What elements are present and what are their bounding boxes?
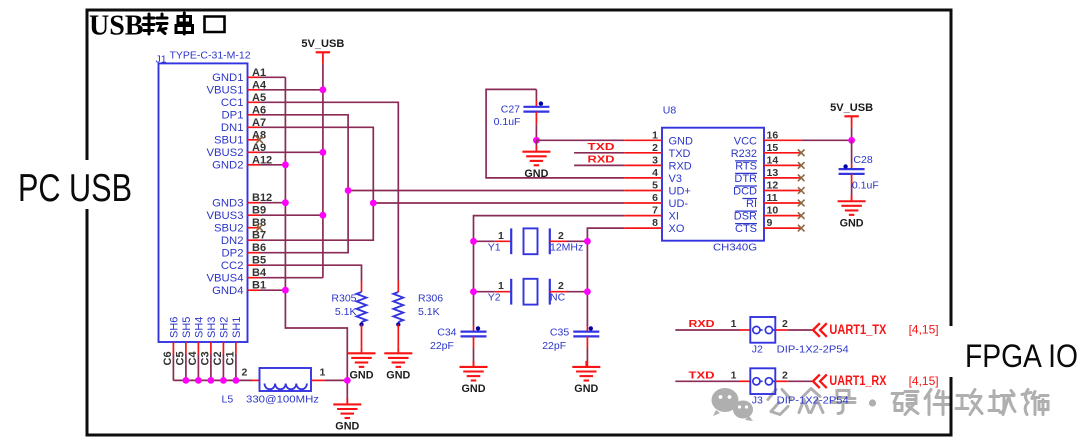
wire CC1 to R306 — [260, 102, 399, 280]
svg-text:5V_USB: 5V_USB — [830, 102, 873, 114]
svg-text:0.1uF: 0.1uF — [852, 180, 879, 192]
ground GND under C34 — [460, 361, 488, 395]
pin 9 CTS of U8 — [735, 217, 801, 235]
svg-text:DP1: DP1 — [222, 110, 244, 122]
svg-text:2: 2 — [782, 318, 788, 330]
svg-text:2: 2 — [558, 230, 564, 242]
pin 1 GND of U8 — [624, 129, 693, 147]
connector J3 DIP-1X2-2P54 — [731, 368, 849, 406]
svg-text:GND2: GND2 — [212, 160, 243, 172]
pin C6 SH6 of J1 — [162, 317, 181, 366]
svg-text:3: 3 — [652, 154, 658, 166]
svg-text:UD+: UD+ — [669, 186, 691, 198]
pin A5 CC1 of J1 — [221, 92, 266, 109]
svg-text:RXD: RXD — [669, 160, 692, 172]
no-connect X on U8 pin 12 — [798, 187, 805, 194]
IC U8 CH340G — [662, 105, 764, 254]
svg-text:CC1: CC1 — [221, 97, 244, 109]
svg-text:SH5: SH5 — [181, 317, 193, 338]
svg-text:DP2: DP2 — [222, 248, 244, 260]
svg-text:TXD: TXD — [588, 141, 616, 153]
connector J1 TYPE-C-31-M-12 — [156, 50, 251, 343]
svg-text:13: 13 — [767, 167, 779, 179]
pin 4 V3 of U8 — [624, 167, 682, 185]
svg-text:2: 2 — [652, 142, 658, 154]
svg-text:GND: GND — [840, 217, 864, 229]
svg-text:2: 2 — [558, 280, 564, 292]
svg-text:2: 2 — [242, 367, 248, 379]
pin 5 UD+ of U8 — [624, 180, 691, 198]
svg-text:C28: C28 — [853, 154, 872, 166]
wire power stem — [851, 128, 853, 141]
svg-text:TXD: TXD — [689, 369, 716, 381]
svg-text:RI: RI — [746, 198, 757, 210]
pin 14 RTS of U8 — [735, 154, 801, 172]
connector J2 DIP-1X2-2P54 — [731, 317, 849, 355]
svg-text:R305: R305 — [331, 293, 356, 305]
pin A7 DN1 of J1 — [221, 117, 266, 134]
svg-text:CH340G: CH340G — [713, 242, 757, 254]
svg-text:DN1: DN1 — [221, 122, 244, 134]
schematic frame border — [87, 10, 951, 435]
no-connect X on U8 pin 9 — [798, 225, 805, 232]
wire 5V_USB net: VBUS1-4 vertical bus — [260, 64, 323, 278]
svg-text:0.1uF: 0.1uF — [494, 116, 521, 128]
svg-text:J2: J2 — [752, 343, 763, 355]
svg-text:DIP-1X2-2P54: DIP-1X2-2P54 — [777, 395, 849, 407]
pin B6 DP2 of J1 — [222, 242, 267, 259]
pin 10 DSR of U8 — [734, 205, 801, 223]
pin A1 GND1 of J1 — [212, 67, 266, 84]
power 5V_USB (right) — [830, 102, 873, 128]
svg-text:9: 9 — [767, 217, 773, 229]
ground GND under R306 — [384, 347, 412, 381]
svg-text:[4,15]: [4,15] — [909, 323, 939, 337]
svg-text:U8: U8 — [663, 105, 677, 117]
ground GND under R305 — [348, 347, 376, 381]
svg-text:GND3: GND3 — [212, 198, 243, 210]
pin 12 DCD of U8 — [733, 180, 801, 198]
svg-text:DTR: DTR — [734, 173, 757, 185]
title USB转串口 — [89, 10, 225, 41]
pin A9 VBUS2 of J1 — [206, 142, 266, 159]
svg-text:1: 1 — [731, 318, 737, 330]
svg-text:1: 1 — [498, 280, 504, 292]
svg-text:Y1: Y1 — [488, 241, 501, 253]
svg-text:J1: J1 — [156, 54, 167, 66]
svg-text:GND: GND — [335, 421, 359, 433]
junction Y1 — [470, 238, 591, 245]
wire C27 junction to U8 pin1 — [536, 139, 624, 141]
svg-text:GND: GND — [462, 383, 486, 395]
svg-text:L5: L5 — [222, 394, 234, 406]
svg-text:2: 2 — [782, 369, 788, 381]
svg-text:7: 7 — [652, 205, 658, 217]
svg-text:1: 1 — [498, 230, 504, 242]
svg-text:GND: GND — [350, 370, 374, 382]
no-connect X on U8 pin 10 — [798, 212, 805, 219]
svg-text:5.1K: 5.1K — [418, 306, 440, 318]
resistor R305 5.1K — [331, 281, 366, 347]
svg-text:TXD: TXD — [669, 148, 691, 160]
pin B9 VBUS3 of J1 — [206, 205, 266, 222]
net label TXD at U8 — [574, 141, 624, 153]
svg-text:C5: C5 — [174, 351, 186, 365]
pin 2 TXD of U8 — [624, 142, 690, 160]
svg-text:GND: GND — [669, 135, 694, 147]
pin A12 GND2 of J1 — [212, 154, 272, 171]
pin B1 GND4 of J1 — [212, 280, 266, 297]
junction UD- — [370, 200, 377, 207]
net label TXD at J3 — [675, 369, 740, 381]
junction VCC — [848, 137, 855, 144]
svg-text:GND1: GND1 — [212, 72, 243, 84]
pin C2 SH2 of J1 — [212, 317, 231, 366]
wire UD- net: DN1/DN2 to U8 pin6 — [260, 127, 625, 240]
svg-text:UD-: UD- — [669, 198, 689, 210]
pin B8 SBU2 of J1 — [214, 217, 266, 234]
svg-text:DSR: DSR — [734, 211, 757, 223]
svg-text:12: 12 — [767, 180, 779, 192]
junction shield bus — [183, 377, 240, 384]
pin 16 VCC of U8 — [734, 129, 801, 147]
svg-text:DCD: DCD — [733, 186, 757, 198]
svg-text:11: 11 — [767, 192, 778, 204]
port UART1_RX — [788, 373, 939, 388]
ground GND under L5 — [333, 398, 361, 432]
svg-text:8: 8 — [652, 217, 658, 229]
svg-text:C35: C35 — [550, 327, 569, 339]
net label RXD at U8 — [574, 154, 624, 166]
junction C27/GND/pin1 — [533, 137, 540, 144]
svg-text:CC2: CC2 — [221, 260, 244, 272]
svg-text:XO: XO — [669, 223, 685, 235]
svg-text:1: 1 — [320, 367, 326, 379]
svg-text:22pF: 22pF — [430, 340, 454, 352]
svg-text:12MHz: 12MHz — [550, 241, 583, 253]
svg-text:10: 10 — [767, 205, 779, 217]
svg-text:SBU1: SBU1 — [214, 135, 244, 147]
svg-text:SH4: SH4 — [193, 317, 205, 338]
svg-text:RXD: RXD — [588, 154, 616, 166]
ground GND under C27 — [522, 146, 550, 180]
svg-text:NC: NC — [550, 292, 566, 304]
svg-text:5V_USB: 5V_USB — [301, 38, 344, 50]
pin 11 RI of U8 — [742, 192, 801, 210]
wire VCC pin16 to 5V — [801, 139, 851, 141]
svg-text:GND: GND — [574, 383, 598, 395]
svg-text:330@100MHz: 330@100MHz — [246, 394, 319, 406]
pin C3 SH3 of J1 — [199, 317, 218, 366]
pin C1 SH1 of J1 — [224, 317, 243, 366]
pin 13 DTR of U8 — [734, 167, 801, 185]
svg-text:XI: XI — [669, 211, 679, 223]
capacitor C28 0.1uF — [839, 140, 879, 201]
svg-text:VBUS2: VBUS2 — [206, 147, 243, 159]
svg-text:GND4: GND4 — [212, 285, 243, 297]
svg-text:C27: C27 — [501, 104, 520, 116]
port UART1_TX — [788, 322, 939, 337]
svg-text:R232: R232 — [731, 148, 757, 160]
svg-text:SBU2: SBU2 — [214, 223, 244, 235]
wire GND net: GND1/GND2/GND3/GND4 bus to L5 — [260, 77, 348, 404]
svg-text:C34: C34 — [437, 327, 456, 339]
net label RXD at J2 — [675, 318, 740, 330]
svg-text:VCC: VCC — [734, 135, 757, 147]
svg-text:C6: C6 — [162, 351, 174, 365]
ground GND under C28 — [838, 195, 866, 229]
svg-text:SH1: SH1 — [231, 317, 243, 338]
svg-text:J3: J3 — [752, 395, 763, 407]
no-connect X on J1 pin A8 SBU1 — [256, 137, 263, 144]
svg-text:RXD: RXD — [689, 318, 715, 330]
junction 5V bus — [320, 86, 327, 218]
power 5V_USB (top left) — [301, 38, 344, 64]
pin C5 SH5 of J1 — [174, 317, 193, 366]
capacitor C34 22pF — [430, 326, 487, 367]
wire SH shield bus to L5 — [173, 354, 252, 380]
junction L5/GND — [344, 377, 351, 384]
svg-text:V3: V3 — [669, 173, 682, 185]
pin B12 GND3 of J1 — [212, 192, 272, 209]
no-connect X on U8 pin 13 — [798, 175, 805, 182]
svg-text:DIP-1X2-2P54: DIP-1X2-2P54 — [777, 343, 849, 355]
svg-text:6: 6 — [652, 192, 658, 204]
pin A6 DP1 of J1 — [222, 104, 267, 121]
wire CC2 to R305 — [260, 265, 362, 281]
svg-text:4: 4 — [652, 167, 658, 179]
svg-text:SH3: SH3 — [206, 317, 218, 338]
wire L5 pin1 to GND — [325, 379, 347, 381]
svg-text:DN2: DN2 — [221, 235, 244, 247]
pin A4 VBUS1 of J1 — [206, 79, 266, 96]
svg-text:16: 16 — [767, 129, 779, 141]
crystal Y2 NC — [474, 279, 588, 305]
svg-text:GND: GND — [524, 168, 548, 180]
svg-text:Y2: Y2 — [488, 292, 501, 304]
svg-text:VBUS1: VBUS1 — [206, 85, 243, 97]
junction Y2 — [470, 288, 591, 295]
svg-text:SH6: SH6 — [168, 317, 180, 338]
junction GND bus — [282, 161, 289, 293]
resistor R306 5.1K — [393, 281, 443, 348]
pin B5 CC2 of J1 — [221, 255, 266, 272]
capacitor C35 22pF — [542, 326, 599, 367]
pin B4 VBUS4 of J1 — [206, 267, 266, 284]
svg-text:C4: C4 — [187, 351, 199, 366]
svg-text:RTS: RTS — [735, 160, 757, 172]
pin A8 SBU1 of J1 — [214, 129, 266, 146]
svg-text:UART1_TX: UART1_TX — [829, 322, 886, 337]
svg-text:PC USB: PC USB — [18, 167, 132, 210]
no-connect X on U8 pin 15 — [798, 150, 805, 157]
inductor L5 330@100MHz — [222, 367, 326, 406]
svg-text:5.1K: 5.1K — [335, 306, 357, 318]
svg-text:GND: GND — [386, 370, 410, 382]
no-connect X on J1 pin B8 SBU2 — [256, 224, 263, 231]
wire XO to crystal rail — [587, 228, 624, 326]
svg-text:VBUS3: VBUS3 — [206, 210, 243, 222]
svg-text:FPGA IO: FPGA IO — [965, 338, 1078, 374]
pin 8 XO of U8 — [624, 217, 685, 235]
pin 6 UD- of U8 — [624, 192, 688, 210]
crystal Y1 12MHz — [474, 228, 588, 254]
capacitor C27 0.1uF — [494, 89, 550, 140]
pin B7 DN2 of J1 — [221, 230, 266, 247]
svg-text:R306: R306 — [418, 293, 443, 305]
no-connect X on U8 pin 14 — [798, 162, 805, 169]
svg-text:CTS: CTS — [735, 223, 757, 235]
pin 7 XI of U8 — [624, 205, 679, 223]
svg-text:22pF: 22pF — [542, 340, 566, 352]
svg-text:5: 5 — [652, 180, 658, 192]
svg-text:TYPE-C-31-M-12: TYPE-C-31-M-12 — [170, 50, 251, 62]
pin 3 RXD of U8 — [624, 154, 691, 172]
svg-text:VBUS4: VBUS4 — [206, 273, 243, 285]
svg-text:1: 1 — [731, 369, 737, 381]
wire XI to crystal rail — [474, 216, 625, 326]
ground GND under C35 — [572, 361, 600, 395]
svg-text:C1: C1 — [224, 351, 236, 365]
pin 15 R232 of U8 — [731, 142, 801, 160]
junction UD+ — [345, 187, 352, 194]
svg-text:15: 15 — [767, 142, 779, 154]
svg-text:C3: C3 — [199, 351, 211, 365]
svg-text:[4,15]: [4,15] — [909, 374, 939, 388]
wire down to GND — [535, 140, 537, 146]
wire UD+ net: DP1/DP2 to U8 pin5 — [260, 115, 625, 253]
watermark wechat icon 公众号 · 硬件攻城狮 — [712, 388, 1049, 421]
svg-text:USB: USB — [89, 10, 143, 41]
svg-text:SH2: SH2 — [218, 317, 230, 338]
pin C4 SH4 of J1 — [187, 317, 206, 366]
wire V3 to C27 — [486, 89, 624, 177]
no-connect X on U8 pin 11 — [798, 200, 805, 207]
svg-text:1: 1 — [652, 129, 658, 141]
svg-text:14: 14 — [767, 154, 779, 166]
svg-text:C2: C2 — [212, 351, 224, 365]
svg-text:UART1_RX: UART1_RX — [829, 373, 886, 388]
